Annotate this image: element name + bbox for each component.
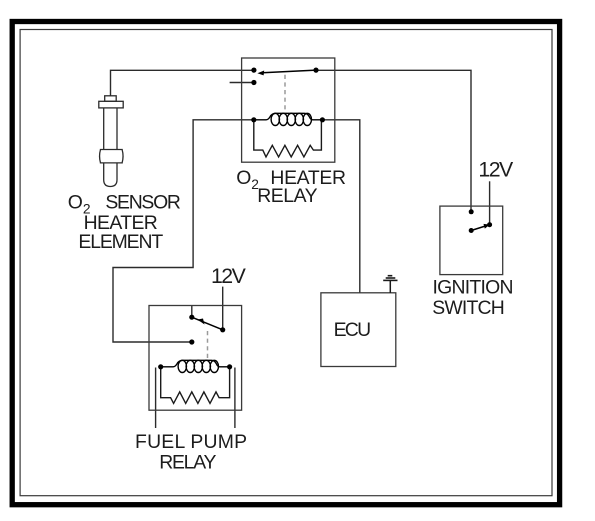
- fuel relay resistor: [161, 367, 230, 404]
- svg-text:FUEL PUMP: FUEL PUMP: [135, 431, 247, 453]
- fuel relay contact dots: [158, 315, 232, 370]
- wire NC stub O2 relay: [230, 82, 254, 84]
- O2 relay switch blade: [257, 70, 316, 75]
- wire from O2 relay coil right down to ECU: [322, 120, 359, 293]
- ECU box: [321, 293, 396, 367]
- svg-text:12V: 12V: [478, 158, 514, 182]
- wire fuel relay top stub: [191, 306, 193, 318]
- svg-text:ELEMENT: ELEMENT: [78, 231, 163, 253]
- O2 heater relay box: [242, 58, 335, 162]
- wire fuel relay left terminal: [155, 368, 157, 429]
- svg-text:SENSOR: SENSOR: [105, 192, 180, 214]
- ignition switch blade: [471, 224, 490, 231]
- fuel relay switch blade: [192, 317, 223, 330]
- wire from O2 relay coil left down to fuel pump relay: [113, 120, 254, 342]
- wire ignition 12V lead: [489, 181, 491, 224]
- ground symbol: [383, 276, 397, 293]
- svg-text:12V: 12V: [211, 264, 247, 288]
- O2 sensor heater element symbol: [99, 96, 123, 187]
- svg-text:RELAY: RELAY: [159, 451, 216, 473]
- O2 relay coil: [254, 113, 323, 125]
- wire fuel relay 12V lead: [222, 287, 224, 330]
- svg-text:SWITCH: SWITCH: [432, 297, 505, 319]
- svg-text:IGNITION: IGNITION: [433, 276, 514, 298]
- ignition switch box: [440, 206, 503, 275]
- wire top-right from O2 heater relay to ignition switch: [316, 70, 471, 212]
- O2 relay resistor: [254, 120, 322, 157]
- fuel pump relay box: [149, 306, 242, 411]
- fuel relay coil: [161, 360, 230, 372]
- O2 relay dashed actuator link: [284, 75, 286, 112]
- svg-text:RELAY: RELAY: [257, 185, 317, 207]
- O2 relay contact dots: [251, 68, 325, 123]
- svg-text:ECU: ECU: [334, 319, 372, 341]
- ignition switch contact dots: [469, 209, 492, 233]
- fuel relay dashed actuator link: [207, 331, 209, 359]
- wire top-left from sensor to O2 heater relay: [111, 70, 254, 96]
- wire fuel relay right terminal: [234, 368, 236, 429]
